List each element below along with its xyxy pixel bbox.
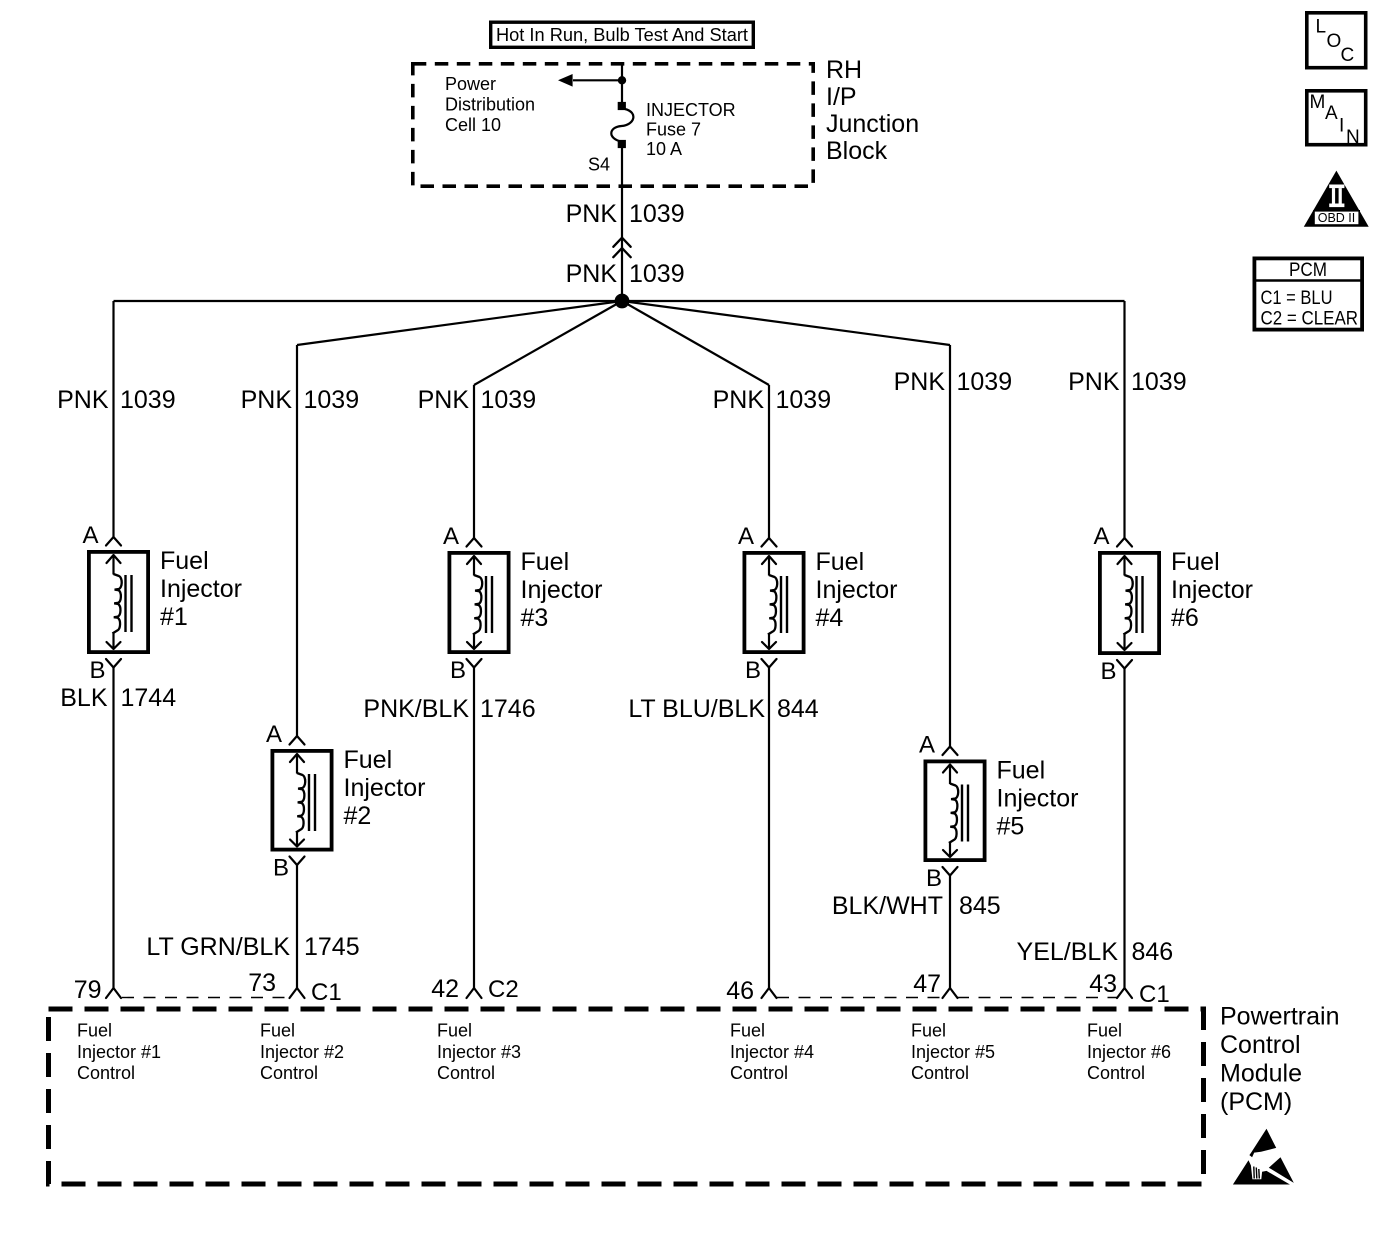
- svg-text:OBD II: OBD II: [1318, 211, 1356, 225]
- svg-text:A: A: [738, 523, 754, 550]
- svg-text:C1: C1: [311, 979, 342, 1006]
- svg-text:1039: 1039: [120, 386, 176, 414]
- svg-text:846: 846: [1132, 938, 1174, 966]
- svg-text:#3: #3: [521, 604, 549, 632]
- svg-text:Control: Control: [1087, 1063, 1145, 1083]
- svg-text:Cell 10: Cell 10: [445, 115, 501, 135]
- svg-text:PNK/BLK: PNK/BLK: [363, 695, 469, 723]
- svg-text:Fuel: Fuel: [160, 547, 209, 575]
- svg-text:73: 73: [248, 969, 276, 997]
- svg-text:845: 845: [959, 892, 1001, 920]
- svg-text:M: M: [1310, 92, 1326, 113]
- svg-text:PNK: PNK: [241, 386, 293, 414]
- svg-text:C1: C1: [1139, 981, 1170, 1008]
- svg-text:Fuel: Fuel: [437, 1021, 472, 1041]
- svg-text:Injector #5: Injector #5: [911, 1042, 995, 1062]
- svg-text:INJECTOR: INJECTOR: [646, 100, 736, 120]
- svg-text:(PCM): (PCM): [1220, 1088, 1292, 1116]
- svg-text:Injector #2: Injector #2: [260, 1042, 344, 1062]
- svg-text:79: 79: [74, 976, 102, 1004]
- svg-text:B: B: [89, 657, 105, 684]
- svg-text:B: B: [273, 855, 289, 882]
- svg-text:Fuel: Fuel: [911, 1021, 946, 1041]
- svg-text:1744: 1744: [121, 684, 177, 712]
- svg-text:C2 = CLEAR: C2 = CLEAR: [1261, 309, 1359, 330]
- svg-text:1039: 1039: [1131, 368, 1187, 396]
- svg-text:BLK: BLK: [60, 684, 108, 712]
- svg-text:YEL/BLK: YEL/BLK: [1017, 938, 1119, 966]
- svg-text:PCM: PCM: [1289, 260, 1327, 281]
- svg-text:Distribution: Distribution: [445, 95, 535, 115]
- svg-text:A: A: [266, 721, 282, 748]
- svg-text:Control: Control: [730, 1063, 788, 1083]
- svg-text:#5: #5: [997, 813, 1025, 841]
- svg-text:I/P: I/P: [826, 83, 857, 111]
- svg-text:Control: Control: [437, 1063, 495, 1083]
- svg-text:Injector: Injector: [160, 575, 242, 603]
- svg-text:Junction: Junction: [826, 110, 919, 138]
- svg-text:Fuse 7: Fuse 7: [646, 120, 701, 140]
- svg-text:PNK: PNK: [713, 386, 765, 414]
- svg-text:Fuel: Fuel: [1087, 1021, 1122, 1041]
- svg-text:Injector: Injector: [344, 774, 426, 802]
- svg-text:S4: S4: [588, 155, 610, 175]
- svg-text:PNK: PNK: [566, 200, 618, 228]
- svg-text:I: I: [1339, 116, 1344, 137]
- svg-text:B: B: [926, 865, 942, 892]
- svg-text:PNK: PNK: [894, 368, 946, 396]
- svg-text:PNK: PNK: [418, 386, 470, 414]
- svg-text:Injector: Injector: [1171, 576, 1253, 604]
- svg-text:1745: 1745: [304, 933, 360, 961]
- svg-text:C1 = BLU: C1 = BLU: [1261, 288, 1333, 309]
- svg-text:1039: 1039: [957, 368, 1013, 396]
- svg-text:C2: C2: [488, 976, 519, 1003]
- svg-text:O: O: [1327, 31, 1342, 52]
- svg-text:43: 43: [1089, 970, 1117, 998]
- svg-text:1039: 1039: [776, 386, 832, 414]
- svg-text:Hot In Run, Bulb Test And Star: Hot In Run, Bulb Test And Start: [496, 25, 748, 45]
- svg-text:Module: Module: [1220, 1060, 1302, 1088]
- svg-text:Fuel: Fuel: [997, 757, 1046, 785]
- svg-text:Injector: Injector: [997, 785, 1079, 813]
- svg-text:#2: #2: [344, 802, 372, 830]
- svg-text:PNK: PNK: [57, 386, 109, 414]
- svg-text:RH: RH: [826, 56, 862, 84]
- svg-text:LT GRN/BLK: LT GRN/BLK: [146, 933, 290, 961]
- svg-text:Powertrain: Powertrain: [1220, 1003, 1340, 1031]
- svg-text:Injector: Injector: [521, 576, 603, 604]
- svg-text:10 A: 10 A: [646, 139, 682, 159]
- svg-text:LT BLU/BLK: LT BLU/BLK: [628, 695, 765, 723]
- svg-text:Block: Block: [826, 137, 888, 165]
- svg-text:Injector #6: Injector #6: [1087, 1042, 1171, 1062]
- svg-text:1746: 1746: [480, 695, 536, 723]
- svg-text:Control: Control: [911, 1063, 969, 1083]
- svg-text:Fuel: Fuel: [77, 1021, 112, 1041]
- svg-text:A: A: [1093, 523, 1109, 550]
- svg-text:A: A: [1325, 103, 1338, 124]
- svg-text:PNK: PNK: [1068, 368, 1120, 396]
- svg-text:Fuel: Fuel: [521, 548, 570, 576]
- svg-text:BLK/WHT: BLK/WHT: [832, 892, 943, 920]
- svg-text:Injector #3: Injector #3: [437, 1042, 521, 1062]
- svg-text:Fuel: Fuel: [1171, 548, 1220, 576]
- svg-text:Fuel: Fuel: [730, 1021, 765, 1041]
- svg-text:B: B: [745, 657, 761, 684]
- svg-text:N: N: [1346, 127, 1360, 148]
- svg-text:Injector #4: Injector #4: [730, 1042, 814, 1062]
- svg-text:Control: Control: [77, 1063, 135, 1083]
- svg-text:Fuel: Fuel: [344, 746, 393, 774]
- svg-text:Fuel: Fuel: [816, 548, 865, 576]
- svg-text:#4: #4: [816, 604, 844, 632]
- svg-text:1039: 1039: [481, 386, 537, 414]
- svg-text:PNK: PNK: [566, 260, 618, 288]
- svg-text:Fuel: Fuel: [260, 1021, 295, 1041]
- svg-text:B: B: [450, 657, 466, 684]
- svg-text:1039: 1039: [304, 386, 360, 414]
- svg-text:1039: 1039: [629, 260, 685, 288]
- svg-text:47: 47: [913, 970, 941, 998]
- svg-text:#1: #1: [160, 603, 188, 631]
- svg-text:A: A: [82, 522, 98, 549]
- svg-text:46: 46: [726, 977, 754, 1005]
- svg-text:Power: Power: [445, 74, 496, 94]
- svg-text:A: A: [919, 732, 935, 759]
- svg-text:1039: 1039: [629, 200, 685, 228]
- svg-text:C: C: [1341, 45, 1355, 66]
- svg-text:L: L: [1316, 17, 1327, 38]
- svg-text:42: 42: [431, 975, 459, 1003]
- svg-text:B: B: [1100, 658, 1116, 685]
- svg-text:Injector #1: Injector #1: [77, 1042, 161, 1062]
- svg-text:A: A: [443, 523, 459, 550]
- svg-text:#6: #6: [1171, 604, 1199, 632]
- svg-text:Control: Control: [260, 1063, 318, 1083]
- svg-text:844: 844: [777, 695, 819, 723]
- svg-text:Control: Control: [1220, 1031, 1301, 1059]
- svg-text:Injector: Injector: [816, 576, 898, 604]
